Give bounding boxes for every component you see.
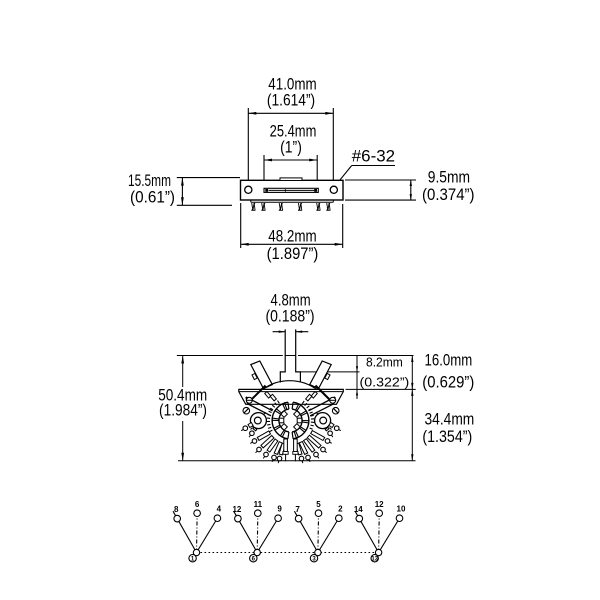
slot cover tab <box>280 178 302 181</box>
svg-text:4: 4 <box>217 505 222 514</box>
svg-text:34.4mm: 34.4mm <box>425 411 475 429</box>
terminal lug 4 (end view) <box>256 436 275 453</box>
terminal lug (edge view) 3 <box>279 203 283 210</box>
extension line B (shaft step) <box>300 371 359 373</box>
terminal lug 10 (end view) <box>304 439 319 459</box>
svg-text:16.0mm: 16.0mm <box>425 352 473 370</box>
svg-text:(0.629”): (0.629”) <box>422 374 474 392</box>
svg-text:(0.374”): (0.374”) <box>422 186 475 204</box>
terminal lug 14 (end view) <box>329 423 341 431</box>
lever shaft (center) <box>280 329 300 382</box>
dimension 50.4mm overall height <box>158 356 207 461</box>
detent ball left <box>243 407 250 414</box>
terminal lug center bottom right <box>293 439 298 461</box>
terminal lug 11 (end view) <box>307 435 326 453</box>
svg-text:9.5mm: 9.5mm <box>428 169 470 187</box>
svg-text:8: 8 <box>174 505 179 514</box>
svg-text:14: 14 <box>354 505 363 514</box>
mounting hole left <box>245 186 252 193</box>
terminal lug (edge view) 6 <box>326 203 330 210</box>
schematic pole 4 <box>354 500 406 562</box>
lever (left tilted position) <box>251 361 272 389</box>
dome vent slots <box>265 392 318 401</box>
terminal lug (edge view) 1 <box>251 203 255 210</box>
svg-text:10: 10 <box>397 505 406 514</box>
wiper arm right (lower, double bar) <box>309 397 336 416</box>
svg-text:48.2mm: 48.2mm <box>268 228 316 246</box>
svg-text:(0.188”): (0.188”) <box>265 308 314 326</box>
svg-text:6: 6 <box>195 500 200 509</box>
svg-text:2: 2 <box>338 505 343 514</box>
svg-text:(0.322”): (0.322”) <box>360 375 410 390</box>
terminal lug 2 (end view) <box>249 427 257 437</box>
schematic pole 1 <box>173 500 222 562</box>
lever slot <box>264 188 318 192</box>
terminal lug (edge view) 5 <box>316 203 320 210</box>
body edge notch ring <box>267 401 315 432</box>
extension line C (plate top) <box>346 388 416 390</box>
wiper arm left (upper edge) <box>248 386 266 404</box>
wiper arm left (lower, double bar) <box>246 397 273 416</box>
terminal lug 12 (end view) <box>311 431 332 444</box>
detent ball right <box>332 407 339 414</box>
svg-text:(1.614”): (1.614”) <box>267 92 315 110</box>
mounting plate (section view) <box>239 389 343 404</box>
lever (right tilted position) <box>310 361 332 389</box>
schematic pole 3 <box>294 500 343 562</box>
svg-text:7: 7 <box>295 505 300 514</box>
svg-text:#6-32: #6-32 <box>352 148 395 166</box>
svg-text:15.5mm: 15.5mm <box>128 172 171 190</box>
dimension 9.5mm plate height (right) <box>345 169 475 205</box>
dimension 48.2mm overall length <box>241 203 343 263</box>
svg-text:(1”): (1”) <box>280 139 302 157</box>
dimension 25.4mm slot length <box>264 123 317 188</box>
mounting hole right <box>330 186 337 193</box>
dimension 4.8mm shaft width <box>265 292 314 333</box>
terminal lug 9 (end view) <box>299 442 310 462</box>
dimension 8.2mm <box>356 355 409 400</box>
switch body lip under plate <box>251 200 333 202</box>
side pole piece right <box>315 413 332 430</box>
schematic pole 2 <box>232 500 282 562</box>
dimension 41.0mm hole spacing <box>248 76 333 186</box>
terminal lug 8 (end view) <box>296 443 304 463</box>
reference line A (top of lever travel) <box>177 355 414 357</box>
svg-text:11: 11 <box>254 500 263 509</box>
svg-text:(1.354”): (1.354”) <box>422 428 472 446</box>
terminal lug 3 (end view) <box>250 431 270 444</box>
terminal lug 1 (end view) <box>241 423 253 431</box>
svg-text:12: 12 <box>232 505 241 514</box>
plate screw hole right (section) <box>330 397 336 403</box>
dimension 16.0mm <box>411 352 474 392</box>
bottom extension line D <box>178 460 416 462</box>
terminal lug 5 (end view) <box>263 439 278 458</box>
dimension 34.4mm <box>411 389 474 460</box>
label #6-32 thread callout with leader <box>335 148 395 187</box>
terminal lug 13 (end view) <box>325 427 333 437</box>
svg-text:12: 12 <box>375 500 384 509</box>
dimension 15.5mm overall height (left) <box>128 172 240 207</box>
rotor ring (castellated) <box>272 402 309 439</box>
switch body dome <box>262 381 318 390</box>
svg-text:9: 9 <box>277 505 282 514</box>
terminal lug 7 (end view) <box>277 443 285 463</box>
svg-text:13: 13 <box>371 556 378 562</box>
terminal lug center bottom left <box>283 439 288 461</box>
wiper arm right (upper edge) <box>316 386 334 404</box>
plate screw hole left (section) <box>246 397 252 403</box>
svg-text:(1.984”): (1.984”) <box>159 402 207 420</box>
terminal lug (edge view) 2 <box>261 203 265 210</box>
svg-text:8.2mm: 8.2mm <box>366 355 403 370</box>
schematic: common bus (dotted) <box>197 552 379 554</box>
svg-text:(0.61”): (0.61”) <box>130 189 175 207</box>
terminal lug (edge view) 4 <box>298 203 302 210</box>
side pole piece left <box>250 413 266 430</box>
svg-text:(1.897”): (1.897”) <box>267 245 319 263</box>
svg-text:5: 5 <box>316 500 321 509</box>
mounting plate (top view) <box>241 180 344 200</box>
terminal lug 6 (end view) <box>272 442 283 462</box>
